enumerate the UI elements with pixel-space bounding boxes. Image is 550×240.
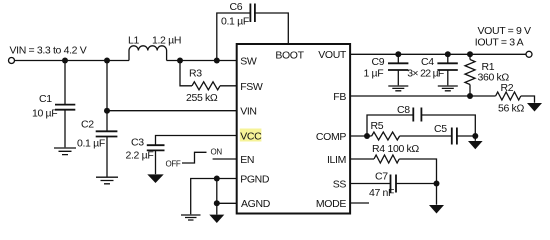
capacitor C2	[77, 111, 117, 177]
svg-text:EN: EN	[240, 154, 254, 166]
ground below AGND (solid triangle)	[209, 215, 224, 223]
svg-text:3× 22 µF: 3× 22 µF	[407, 68, 444, 80]
svg-text:R5: R5	[371, 120, 384, 132]
capacitor C4 3× 22 µF	[407, 54, 458, 85]
svg-text:R3: R3	[189, 68, 202, 80]
svg-text:C9: C9	[372, 56, 385, 68]
junction FB node	[467, 93, 473, 99]
svg-text:2.2 µF: 2.2 µF	[126, 150, 154, 162]
op-amp U1 boost converter IC body	[237, 44, 350, 214]
svg-text:FB: FB	[333, 91, 346, 103]
ground below C4	[438, 86, 458, 91]
wire PGND	[191, 179, 237, 215]
wire SS ground drop	[436, 184, 438, 205]
ground below C1	[54, 148, 76, 155]
svg-text:SW: SW	[240, 56, 257, 68]
wire MODE stub	[350, 202, 369, 204]
junction COMP node	[364, 133, 370, 139]
ground below R2 (solid triangle)	[527, 103, 542, 112]
capacitor C6 0.1 µF (bootstrap)	[217, 1, 288, 61]
resistor R1 360 kΩ	[465, 54, 509, 96]
wire SS	[350, 183, 390, 185]
wire AGND ground drop	[216, 203, 218, 214]
capacitor C9 1 µF	[364, 54, 409, 85]
ground below C3 (solid triangle)	[147, 174, 163, 183]
svg-text:SS: SS	[333, 178, 347, 190]
ground below PGND	[181, 215, 201, 220]
svg-text:C8: C8	[397, 104, 410, 116]
svg-text:56 kΩ: 56 kΩ	[498, 102, 524, 114]
wire VIN pin	[107, 110, 237, 112]
svg-text:FSW: FSW	[240, 81, 263, 93]
wire VOUT rail	[350, 53, 526, 55]
junction C1 node	[62, 58, 68, 64]
svg-text:C6: C6	[230, 1, 243, 13]
ground below C2	[96, 177, 118, 184]
ground below SS (solid triangle)	[429, 205, 444, 214]
svg-text:ILIM: ILIM	[327, 154, 346, 166]
inductor L1 1.2 µH	[128, 35, 181, 61]
junction C9 node	[395, 51, 401, 57]
ground below C9	[388, 86, 408, 91]
svg-text:ON: ON	[211, 148, 223, 157]
wire L1 to SW	[167, 60, 237, 62]
svg-text:MODE: MODE	[316, 198, 346, 210]
node VOUT output terminal	[526, 51, 532, 57]
svg-text:VCC: VCC	[240, 130, 262, 142]
svg-text:C2: C2	[81, 119, 94, 131]
svg-text:VIN = 3.3 to 4.2 V: VIN = 3.3 to 4.2 V	[10, 45, 87, 57]
resistor R4 100 kΩ	[372, 143, 437, 184]
resistor R3 255 kΩ	[180, 61, 237, 104]
switch waveform OFF/ON on EN	[166, 148, 223, 169]
svg-text:PGND: PGND	[240, 173, 270, 185]
svg-text:47 nF: 47 nF	[369, 187, 394, 199]
ground below C5 (solid triangle)	[468, 141, 483, 149]
svg-text:R2: R2	[501, 82, 514, 94]
svg-text:OFF: OFF	[166, 160, 181, 169]
wire C5 ground drop	[474, 136, 476, 141]
wire FB	[350, 95, 496, 97]
svg-text:BOOT: BOOT	[275, 49, 304, 61]
svg-text:COMP: COMP	[316, 131, 346, 143]
junction R3 node	[177, 58, 183, 64]
svg-text:C4: C4	[421, 56, 434, 68]
junction C4 node	[445, 51, 451, 57]
wire EN pin stub	[213, 158, 237, 160]
svg-text:C3: C3	[131, 137, 144, 149]
svg-text:1.2 µH: 1.2 µH	[152, 35, 181, 47]
wire input rail to L1	[15, 60, 130, 62]
junction C5 ground node	[472, 133, 478, 139]
junction VIN pin node	[104, 108, 110, 114]
node VIN input terminal	[9, 58, 15, 64]
svg-text:VOUT: VOUT	[318, 49, 347, 61]
wire ILIM	[350, 158, 374, 160]
svg-text:C5: C5	[434, 123, 447, 135]
capacitor C1	[32, 61, 75, 148]
svg-text:10 µF: 10 µF	[32, 108, 57, 120]
svg-text:255 kΩ: 255 kΩ	[186, 92, 218, 104]
capacitor C8	[367, 104, 475, 136]
svg-text:AGND: AGND	[241, 198, 271, 210]
svg-text:VOUT = 9 V: VOUT = 9 V	[478, 25, 532, 37]
svg-text:0.1 µF: 0.1 µF	[77, 138, 105, 150]
svg-text:1 µF: 1 µF	[364, 68, 384, 80]
svg-text:0.1 µF: 0.1 µF	[221, 16, 249, 28]
wire R5 to C5	[400, 135, 452, 137]
svg-text:R4: R4	[372, 143, 385, 155]
wire AGND pin	[217, 202, 237, 204]
wire COMP	[350, 135, 372, 137]
svg-text:VIN: VIN	[240, 105, 256, 117]
wire PGND to AGND	[216, 179, 218, 204]
svg-text:C1: C1	[39, 93, 52, 105]
svg-text:C7: C7	[375, 170, 388, 182]
resistor R5	[371, 120, 400, 140]
junction C6 node	[214, 58, 220, 64]
junction SS ground node	[434, 181, 440, 187]
junction R1 top node	[467, 51, 473, 57]
svg-text:100 kΩ: 100 kΩ	[388, 143, 420, 155]
capacitor C3 2.2 µF	[126, 136, 237, 175]
svg-text:L1: L1	[128, 35, 139, 47]
capacitor C7 47 nF	[369, 170, 437, 199]
resistor R2 56 kΩ	[496, 82, 535, 114]
capacitor C5	[434, 123, 475, 145]
junction AGND node	[214, 200, 220, 206]
svg-text:IOUT = 3 A: IOUT = 3 A	[475, 36, 524, 48]
pin label VCC (highlighted)	[240, 129, 262, 143]
wire C2 drop	[106, 61, 108, 111]
junction C2 top node	[104, 58, 110, 64]
junction PGND node	[214, 176, 220, 182]
